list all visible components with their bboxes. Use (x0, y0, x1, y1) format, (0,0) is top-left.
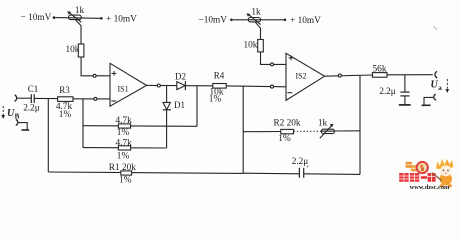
input terminal UB top (15, 95, 17, 102)
input return terminal (16, 119, 18, 125)
wire 10k to IS1 + input (81, 57, 110, 76)
svg-text:10k: 10k (66, 45, 80, 55)
resistor R4 (213, 84, 226, 89)
wire vertical from C1-R3 junction down (47, 99, 49, 172)
capacitor C1 (30, 94, 32, 103)
svg-text:a: a (438, 84, 442, 92)
resistor R1 20k bottom (48, 172, 243, 173)
node circle IS2 output (338, 74, 341, 77)
wire 56k to output terminal (387, 74, 433, 76)
capacitor 2.2u bottom (298, 168, 300, 178)
wiper of pot 1 (75, 19, 81, 44)
svg-text:U: U (431, 80, 439, 91)
svg-text:2.2μ: 2.2μ (23, 104, 40, 114)
svg-text:10k: 10k (244, 41, 258, 51)
terminal +10mV (pot 1) (100, 17, 103, 20)
node circle IS1 output (157, 84, 160, 87)
node circle on IS1 + input (93, 74, 96, 77)
svg-text:1%: 1% (59, 110, 72, 120)
svg-text:−10mV: −10mV (199, 16, 228, 26)
wire (233, 19, 284, 21)
svg-text:56k: 56k (373, 64, 387, 74)
svg-text:− 10mV: − 10mV (21, 13, 52, 23)
svg-text:1%: 1% (278, 134, 291, 144)
value 2.2u of C1 (23, 104, 40, 114)
stray scan mark (434, 27, 438, 30)
resistor 10k vertical (IS2 non-inv) (258, 40, 264, 52)
diode D1 vertical (166, 86, 168, 103)
op-amp IS1 (110, 63, 147, 106)
svg-text:2.2μ: 2.2μ (379, 87, 396, 97)
resistor 10k vertical (IS1 non-inv) (78, 44, 84, 57)
svg-text:1%: 1% (117, 128, 130, 138)
wire 10k to IS2 + input (261, 52, 287, 65)
wire vertical x197 (196, 86, 198, 127)
svg-text:IS2: IS2 (296, 72, 307, 81)
output return terminal (434, 94, 436, 100)
terminal -10mV (pot 2) (230, 19, 233, 22)
svg-text:4.7k: 4.7k (115, 116, 132, 126)
svg-text:1%: 1% (117, 152, 130, 162)
wire IS1 output (147, 84, 177, 86)
terminal -10mV (left pot 1) (53, 16, 56, 19)
label UB with arrow (7, 108, 20, 121)
label Ua with arrow (431, 80, 443, 93)
wire (55, 17, 100, 20)
svg-text:1k: 1k (75, 6, 85, 16)
svg-text:www.dzsc.com: www.dzsc.com (410, 184, 450, 190)
label R3 (59, 85, 70, 95)
svg-text:R4: R4 (214, 71, 225, 81)
value 4.7k of R3 (56, 102, 73, 112)
wire D2 to R4 (185, 85, 212, 87)
resistor R3 (58, 97, 73, 102)
tolerance 1% of R3 (59, 110, 72, 120)
wire C1 to R3 (34, 97, 57, 99)
wire R4 to IS2 inverting input (226, 85, 286, 88)
svg-text:R3: R3 (59, 85, 70, 95)
potentiometer 1k (first) (69, 15, 82, 20)
wire R2 to 1k trimmer (294, 130, 322, 132)
svg-text:1k: 1k (318, 119, 328, 129)
wire vertical x243 (IS2 - node to bottom) (242, 86, 244, 173)
op-amp IS2 (286, 53, 325, 100)
wire R3 to IS1 inverting input (73, 98, 110, 100)
svg-text:IS1: IS1 (118, 85, 129, 94)
svg-text:+ 10mV: + 10mV (106, 15, 137, 25)
terminal +10mV (pot 2) (284, 19, 287, 22)
wiper pot 2 (255, 22, 261, 40)
resistor 4.7k upper feedback (83, 125, 197, 128)
svg-text:4.7k: 4.7k (115, 139, 132, 149)
svg-text:+ 10mV: + 10mV (290, 16, 321, 26)
dashed arrow at Ua (446, 79, 448, 90)
svg-text:1%: 1% (119, 176, 132, 186)
label C1 (28, 84, 39, 94)
node circle IS2 - input (271, 85, 274, 88)
svg-text:D1: D1 (174, 100, 185, 110)
svg-text:R1 20k: R1 20k (109, 163, 136, 173)
svg-text:1%: 1% (209, 95, 222, 105)
diode D2 (177, 82, 185, 90)
dashed arrow at UB (2, 106, 4, 116)
svg-text:+: + (306, 165, 310, 171)
potentiometer 1k trimmer (321, 130, 334, 132)
wire IS2 output (325, 75, 373, 76)
wire bottom row right segment (243, 172, 299, 175)
resistor 4.7k lower feedback (83, 147, 167, 149)
watermark dzsc (399, 159, 453, 191)
svg-text:1k: 1k (251, 8, 261, 18)
output terminal Ua (435, 71, 437, 78)
node circle on IS1 - input (94, 97, 97, 100)
wire vertical x360 (IS2 out to bottom) (359, 75, 361, 174)
node circle IS2 + input (271, 63, 274, 66)
svg-text:D2: D2 (175, 72, 186, 82)
svg-text:B: B (15, 113, 20, 121)
capacitor 2.2u output (404, 75, 406, 92)
potentiometer 1k (second) (248, 18, 260, 22)
resistor 56k (372, 73, 387, 78)
wire vertical from IS1 - node down (82, 99, 84, 148)
svg-text:C1: C1 (28, 84, 39, 94)
wire (18, 97, 31, 99)
wire 1k to x360 (334, 130, 360, 132)
resistor R2 20k (243, 131, 281, 133)
svg-text:R2 20k: R2 20k (273, 119, 300, 129)
